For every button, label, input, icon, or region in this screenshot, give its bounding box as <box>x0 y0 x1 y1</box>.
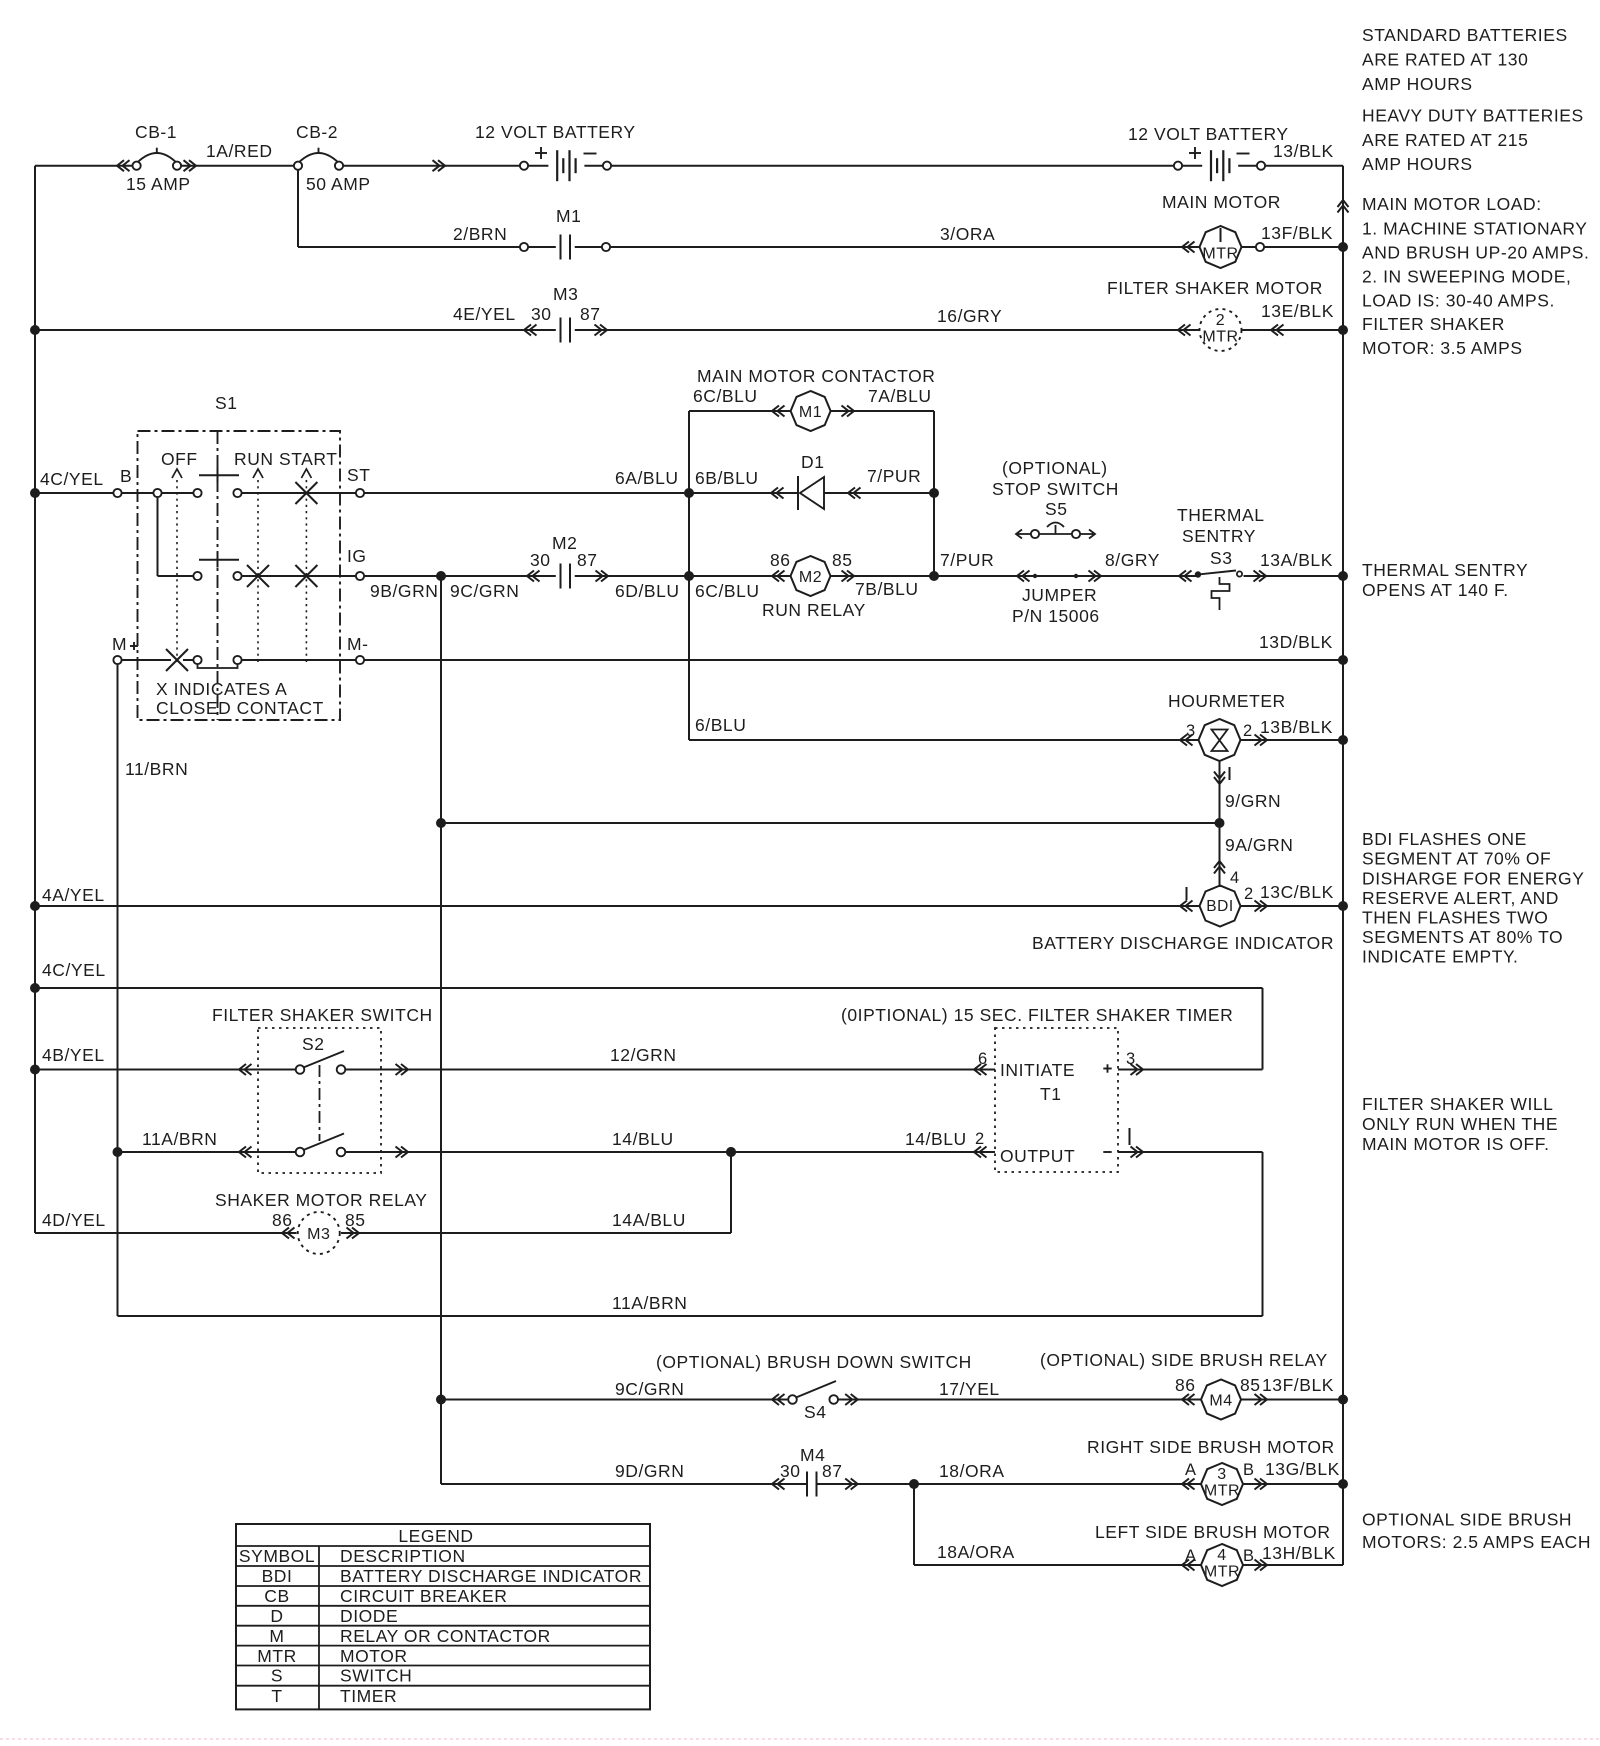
svg-text:S: S <box>271 1666 283 1686</box>
svg-text:4C/YEL: 4C/YEL <box>42 960 106 980</box>
svg-text:S1: S1 <box>215 393 238 413</box>
svg-text:4: 4 <box>1217 1547 1226 1564</box>
svg-text:JUMPER: JUMPER <box>1022 585 1097 605</box>
svg-text:2/BRN: 2/BRN <box>453 224 507 244</box>
svg-text:ARE RATED AT 130: ARE RATED AT 130 <box>1362 50 1528 70</box>
svg-text:14/BLU: 14/BLU <box>905 1129 967 1149</box>
svg-text:13F/BLK: 13F/BLK <box>1261 223 1333 243</box>
svg-text:OPTIONAL SIDE BRUSH: OPTIONAL SIDE BRUSH <box>1362 1510 1572 1530</box>
svg-text:50 AMP: 50 AMP <box>306 174 371 194</box>
svg-text:CLOSED CONTACT: CLOSED CONTACT <box>156 698 324 718</box>
svg-text:87: 87 <box>580 304 601 324</box>
svg-text:14A/BLU: 14A/BLU <box>612 1210 686 1230</box>
svg-text:ARE RATED AT 215: ARE RATED AT 215 <box>1362 130 1528 150</box>
svg-text:INITIATE: INITIATE <box>1000 1060 1075 1080</box>
svg-text:FILTER SHAKER MOTOR: FILTER SHAKER MOTOR <box>1107 278 1323 298</box>
svg-text:OFF: OFF <box>161 449 198 469</box>
svg-text:13H/BLK: 13H/BLK <box>1262 1543 1336 1563</box>
svg-text:9C/GRN: 9C/GRN <box>615 1379 684 1399</box>
svg-text:SEGMENT AT 70% OF: SEGMENT AT 70% OF <box>1362 849 1551 869</box>
svg-text:LEFT SIDE BRUSH MOTOR: LEFT SIDE BRUSH MOTOR <box>1095 1522 1331 1542</box>
svg-text:2: 2 <box>1216 312 1225 329</box>
svg-text:D: D <box>270 1606 283 1626</box>
svg-text:B: B <box>120 466 132 486</box>
svg-text:FILTER SHAKER: FILTER SHAKER <box>1362 314 1505 334</box>
svg-text:13G/BLK: 13G/BLK <box>1265 1459 1340 1479</box>
svg-text:18A/ORA: 18A/ORA <box>937 1542 1015 1562</box>
svg-text:M2: M2 <box>799 569 822 586</box>
svg-text:MAIN MOTOR: MAIN MOTOR <box>1162 192 1281 212</box>
svg-text:9/GRN: 9/GRN <box>1225 791 1281 811</box>
svg-text:START: START <box>279 449 338 469</box>
svg-text:2: 2 <box>1243 722 1253 740</box>
svg-text:8/GRY: 8/GRY <box>1105 550 1160 570</box>
svg-text:T1: T1 <box>1040 1084 1062 1104</box>
svg-text:85: 85 <box>832 550 853 570</box>
svg-text:13C/BLK: 13C/BLK <box>1260 882 1334 902</box>
svg-text:RUN: RUN <box>234 449 274 469</box>
svg-text:HOURMETER: HOURMETER <box>1168 691 1286 711</box>
svg-text:6: 6 <box>978 1050 988 1068</box>
svg-text:D1: D1 <box>801 452 824 472</box>
svg-text:6A/BLU: 6A/BLU <box>615 468 679 488</box>
svg-text:S3: S3 <box>1210 548 1233 568</box>
svg-text:SWITCH: SWITCH <box>340 1666 412 1686</box>
svg-text:STOP SWITCH: STOP SWITCH <box>992 479 1119 499</box>
svg-text:AMP HOURS: AMP HOURS <box>1362 74 1473 94</box>
svg-text:6C/BLU: 6C/BLU <box>693 386 758 406</box>
svg-text:S5: S5 <box>1045 499 1068 519</box>
svg-text:MAIN MOTOR CONTACTOR: MAIN MOTOR CONTACTOR <box>697 366 936 386</box>
svg-text:M-: M- <box>347 634 369 654</box>
svg-text:11/BRN: 11/BRN <box>125 759 188 779</box>
svg-text:13B/BLK: 13B/BLK <box>1260 717 1333 737</box>
svg-text:P/N 15006: P/N 15006 <box>1012 606 1100 626</box>
svg-text:M4: M4 <box>1209 1393 1232 1410</box>
svg-text:6B/BLU: 6B/BLU <box>695 468 759 488</box>
svg-text:OPENS AT 140 F.: OPENS AT 140 F. <box>1362 580 1509 600</box>
svg-text:15 AMP: 15 AMP <box>126 174 191 194</box>
svg-text:B: B <box>1243 1547 1255 1565</box>
svg-text:7/PUR: 7/PUR <box>867 466 921 486</box>
svg-text:S2: S2 <box>302 1034 325 1054</box>
svg-text:M1: M1 <box>556 206 581 226</box>
svg-text:MTR: MTR <box>1202 329 1238 346</box>
svg-text:3: 3 <box>1126 1050 1136 1068</box>
svg-text:FILTER SHAKER WILL: FILTER SHAKER WILL <box>1362 1094 1553 1114</box>
svg-text:AND BRUSH UP-20 AMPS.: AND BRUSH UP-20 AMPS. <box>1362 243 1589 263</box>
svg-text:BATTERY DISCHARGE INDICATOR: BATTERY DISCHARGE INDICATOR <box>340 1566 642 1586</box>
svg-text:MTR: MTR <box>1204 1564 1240 1581</box>
svg-text:6C/BLU: 6C/BLU <box>695 581 760 601</box>
svg-text:DISHARGE FOR ENERGY: DISHARGE FOR ENERGY <box>1362 869 1584 889</box>
svg-text:CIRCUIT BREAKER: CIRCUIT BREAKER <box>340 1586 507 1606</box>
svg-text:7A/BLU: 7A/BLU <box>868 386 932 406</box>
svg-text:85: 85 <box>345 1210 366 1230</box>
svg-text:M2: M2 <box>552 533 577 553</box>
svg-text:S4: S4 <box>804 1402 827 1422</box>
svg-text:9D/GRN: 9D/GRN <box>615 1461 684 1481</box>
svg-text:2: 2 <box>975 1130 985 1148</box>
svg-text:30: 30 <box>530 550 551 570</box>
svg-text:A: A <box>1185 1461 1197 1479</box>
svg-text:BATTERY DISCHARGE INDICATOR: BATTERY DISCHARGE INDICATOR <box>1032 933 1334 953</box>
svg-text:6/BLU: 6/BLU <box>695 715 746 735</box>
svg-text:RIGHT SIDE BRUSH MOTOR: RIGHT SIDE BRUSH MOTOR <box>1087 1437 1335 1457</box>
svg-text:30: 30 <box>531 304 552 324</box>
svg-text:T: T <box>271 1686 282 1706</box>
svg-text:SENTRY: SENTRY <box>1182 526 1256 546</box>
svg-text:87: 87 <box>577 550 598 570</box>
svg-text:4E/YEL: 4E/YEL <box>453 304 516 324</box>
svg-text:LOAD IS: 30-40 AMPS.: LOAD IS: 30-40 AMPS. <box>1362 291 1555 311</box>
svg-text:A: A <box>1185 1547 1197 1565</box>
svg-text:RELAY OR CONTACTOR: RELAY OR CONTACTOR <box>340 1626 551 1646</box>
svg-text:(OPTIONAL) BRUSH DOWN SWITCH: (OPTIONAL) BRUSH DOWN SWITCH <box>656 1352 972 1372</box>
svg-text:BDI: BDI <box>262 1566 293 1586</box>
svg-text:6D/BLU: 6D/BLU <box>615 581 680 601</box>
svg-text:12/GRN: 12/GRN <box>610 1045 677 1065</box>
svg-text:DESCRIPTION: DESCRIPTION <box>340 1546 466 1566</box>
svg-text:9C/GRN: 9C/GRN <box>450 581 519 601</box>
svg-text:13E/BLK: 13E/BLK <box>1261 301 1334 321</box>
svg-text:ST: ST <box>347 465 370 485</box>
svg-text:M: M <box>112 634 127 654</box>
svg-text:RUN RELAY: RUN RELAY <box>762 600 866 620</box>
svg-text:RESERVE ALERT, AND: RESERVE ALERT, AND <box>1362 888 1559 908</box>
svg-text:HEAVY DUTY BATTERIES: HEAVY DUTY BATTERIES <box>1362 106 1584 126</box>
svg-text:BDI FLASHES ONE: BDI FLASHES ONE <box>1362 829 1527 849</box>
svg-text:16/GRY: 16/GRY <box>937 306 1002 326</box>
svg-text:MOTORS: 2.5 AMPS EACH: MOTORS: 2.5 AMPS EACH <box>1362 1532 1591 1552</box>
svg-text:86: 86 <box>770 550 791 570</box>
svg-text:M: M <box>269 1626 284 1646</box>
svg-text:86: 86 <box>1175 1375 1196 1395</box>
svg-text:9B/GRN: 9B/GRN <box>370 581 438 601</box>
svg-text:SEGMENTS AT 80% TO: SEGMENTS AT 80% TO <box>1362 927 1563 947</box>
svg-text:13/BLK: 13/BLK <box>1273 141 1334 161</box>
svg-text:1. MACHINE STATIONARY: 1. MACHINE STATIONARY <box>1362 219 1587 239</box>
svg-text:2. IN SWEEPING MODE,: 2. IN SWEEPING MODE, <box>1362 267 1571 287</box>
svg-text:BDI: BDI <box>1206 898 1234 915</box>
svg-text:30: 30 <box>780 1461 801 1481</box>
svg-text:MOTOR: MOTOR <box>340 1646 408 1666</box>
svg-text:13F/BLK: 13F/BLK <box>1262 1375 1334 1395</box>
svg-text:9A/GRN: 9A/GRN <box>1225 835 1293 855</box>
svg-text:11A/BRN: 11A/BRN <box>142 1129 218 1149</box>
svg-text:1A/RED: 1A/RED <box>206 141 273 161</box>
svg-text:4B/YEL: 4B/YEL <box>42 1045 105 1065</box>
svg-text:X INDICATES A: X INDICATES A <box>156 679 287 699</box>
svg-text:ONLY RUN WHEN THE: ONLY RUN WHEN THE <box>1362 1114 1558 1134</box>
svg-text:M3: M3 <box>307 1226 330 1243</box>
svg-text:18/ORA: 18/ORA <box>939 1461 1005 1481</box>
svg-text:MTR: MTR <box>1204 1483 1240 1500</box>
svg-text:FILTER SHAKER SWITCH: FILTER SHAKER SWITCH <box>212 1005 433 1025</box>
svg-text:3/ORA: 3/ORA <box>940 224 995 244</box>
svg-text:CB: CB <box>264 1586 289 1606</box>
svg-text:SHAKER MOTOR RELAY: SHAKER MOTOR RELAY <box>215 1190 428 1210</box>
svg-text:12 VOLT BATTERY: 12 VOLT BATTERY <box>475 122 636 142</box>
svg-text:MOTOR: 3.5 AMPS: MOTOR: 3.5 AMPS <box>1362 338 1523 358</box>
svg-text:4: 4 <box>1230 869 1240 887</box>
svg-text:4D/YEL: 4D/YEL <box>42 1210 106 1230</box>
svg-text:14/BLU: 14/BLU <box>612 1129 674 1149</box>
svg-text:13A/BLK: 13A/BLK <box>1260 550 1333 570</box>
svg-text:85: 85 <box>1240 1375 1261 1395</box>
svg-text:3: 3 <box>1186 722 1196 740</box>
svg-text:MTR: MTR <box>257 1646 297 1666</box>
svg-text:4C/YEL: 4C/YEL <box>40 469 104 489</box>
svg-text:THERMAL: THERMAL <box>1177 505 1264 525</box>
svg-text:TIMER: TIMER <box>340 1686 397 1706</box>
svg-text:MAIN MOTOR IS OFF.: MAIN MOTOR IS OFF. <box>1362 1134 1550 1154</box>
svg-text:7B/BLU: 7B/BLU <box>855 579 919 599</box>
svg-text:7/PUR: 7/PUR <box>940 550 994 570</box>
svg-text:MAIN MOTOR LOAD:: MAIN MOTOR LOAD: <box>1362 194 1542 214</box>
svg-text:87: 87 <box>822 1461 843 1481</box>
svg-text:3: 3 <box>1217 1466 1226 1483</box>
svg-text:LEGEND: LEGEND <box>398 1526 473 1546</box>
svg-text:M3: M3 <box>553 284 578 304</box>
svg-text:DIODE: DIODE <box>340 1606 398 1626</box>
svg-text:86: 86 <box>272 1210 293 1230</box>
svg-text:(OPTIONAL) SIDE BRUSH RELAY: (OPTIONAL) SIDE BRUSH RELAY <box>1040 1350 1328 1370</box>
svg-text:11A/BRN: 11A/BRN <box>612 1293 688 1313</box>
svg-text:MTR: MTR <box>1202 246 1238 263</box>
svg-text:4A/YEL: 4A/YEL <box>42 885 105 905</box>
svg-text:(OPTIONAL): (OPTIONAL) <box>1002 458 1108 478</box>
svg-text:SYMBOL: SYMBOL <box>239 1546 315 1566</box>
svg-text:M1: M1 <box>799 404 822 421</box>
svg-text:2: 2 <box>1244 885 1254 903</box>
svg-text:INDICATE EMPTY.: INDICATE EMPTY. <box>1362 947 1518 967</box>
svg-text:(0IPTIONAL) 15 SEC. FILTER SHA: (0IPTIONAL) 15 SEC. FILTER SHAKER TIMER <box>841 1005 1233 1025</box>
svg-text:17/YEL: 17/YEL <box>939 1379 1000 1399</box>
svg-text:OUTPUT: OUTPUT <box>1000 1146 1075 1166</box>
svg-text:STANDARD BATTERIES: STANDARD BATTERIES <box>1362 25 1568 45</box>
svg-text:AMP HOURS: AMP HOURS <box>1362 154 1473 174</box>
svg-text:CB-1: CB-1 <box>135 122 177 142</box>
svg-text:IG: IG <box>347 546 367 566</box>
svg-text:THERMAL SENTRY: THERMAL SENTRY <box>1362 560 1528 580</box>
svg-text:B: B <box>1243 1461 1255 1479</box>
svg-text:CB-2: CB-2 <box>296 122 338 142</box>
svg-text:12 VOLT BATTERY: 12 VOLT BATTERY <box>1128 124 1289 144</box>
svg-text:13D/BLK: 13D/BLK <box>1259 632 1333 652</box>
svg-text:THEN FLASHES TWO: THEN FLASHES TWO <box>1362 908 1548 928</box>
